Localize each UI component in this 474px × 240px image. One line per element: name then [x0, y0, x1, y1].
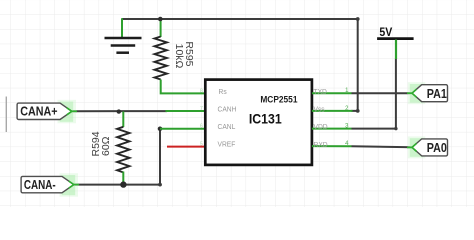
svg-text:CANA+: CANA+: [20, 105, 57, 119]
svg-text:RXD: RXD: [314, 139, 328, 149]
wire: VDD to 5V (black): [352, 59, 396, 129]
wire: R594 bottom stub (green): [122, 172, 124, 185]
wire: R594 top stub (green): [122, 112, 124, 128]
node: top-right corner bendpoint: [356, 17, 360, 21]
resistor R594: [117, 127, 129, 173]
svg-text:IC131: IC131: [249, 111, 282, 127]
svg-text:VDD: VDD: [314, 122, 328, 132]
label R594 60Ω: [90, 131, 112, 156]
node: big junction at R594 bottom: [120, 181, 126, 187]
wire: RXD to PA0 (black): [352, 146, 413, 147]
svg-text:60Ω: 60Ω: [100, 136, 112, 156]
node: CANA- corner bendpoint: [158, 183, 162, 187]
resistor R595: [155, 37, 167, 80]
wire: ground stub (green): [121, 18, 123, 37]
svg-text:CANL: CANL: [218, 122, 236, 132]
svg-text:VREF: VREF: [218, 139, 236, 149]
node: Vss corner bendpoint: [356, 109, 360, 113]
wire: VREF red stub: [167, 146, 206, 148]
wire: Vss pin segment (green): [312, 110, 353, 112]
wire: R595 bottom to Rs pin (green): [161, 80, 206, 94]
wire: CANL pin segment (green): [160, 128, 206, 130]
svg-text:PA1: PA1: [427, 87, 448, 101]
svg-text:Rs: Rs: [219, 86, 228, 96]
svg-text:PA0: PA0: [427, 141, 447, 155]
wire: TXD to PA1 (black): [352, 92, 413, 94]
wire: CANA- horizontal and up to CANL: [72, 129, 161, 185]
wire: top net GND horizontal: [122, 18, 358, 20]
connector CANA+: [17, 100, 77, 124]
left window-edge artifact: [5, 97, 7, 133]
wire: VDD pin segment (green): [312, 128, 352, 130]
node: VDD corner bendpoint: [394, 127, 397, 130]
connector CANA-: [21, 173, 79, 197]
wire: RXD pin segment (green): [312, 145, 352, 147]
svg-text:CANH: CANH: [218, 104, 237, 114]
svg-text:6: 6: [200, 124, 203, 130]
svg-text:MCP2551: MCP2551: [260, 94, 297, 105]
ground: [105, 38, 142, 53]
svg-text:5: 5: [200, 141, 203, 147]
connector PA0: [407, 136, 448, 158]
wire: R595 top stub (green): [160, 19, 162, 37]
node: junction on CANA+ wire at R594: [117, 109, 121, 113]
wire: TXD pin segment (green): [312, 92, 352, 94]
wire: CANH pin segment (green): [166, 110, 206, 112]
svg-text:8: 8: [200, 88, 203, 94]
wire: CANA+ to CANH (black part): [71, 110, 168, 112]
svg-text:TXD: TXD: [314, 86, 327, 96]
svg-text:10kΩ: 10kΩ: [173, 44, 185, 69]
svg-text:CANA-: CANA-: [24, 179, 56, 192]
power 5V: [377, 27, 414, 59]
connector PA1: [407, 82, 448, 104]
svg-text:Vss: Vss: [314, 104, 326, 114]
label R595 10kΩ: [173, 41, 195, 68]
op-amp/IC box IC131: [205, 80, 312, 165]
node: junction on top net at R595: [158, 17, 163, 22]
svg-text:7: 7: [200, 106, 203, 112]
node: junction at CANL: [158, 127, 163, 132]
wire: top net vertical down to Vss row: [351, 19, 357, 111]
